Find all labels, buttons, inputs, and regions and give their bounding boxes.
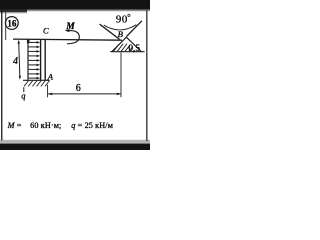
top black scan band [0,0,150,10]
support base line [110,51,144,53]
support hatching [113,44,132,52]
arrow 7 [29,68,38,70]
extension line left [47,85,49,98]
page background [0,0,150,150]
svg-text:M: M [65,22,75,32]
support triangle at B [112,37,141,51]
dimension 6 left arrowhead [48,93,52,96]
beam CB with left extension [13,39,122,40]
dimension 4 top arrowhead [18,40,20,44]
column left edge [40,40,42,81]
arrow 6 [29,64,38,66]
moment arrowhead [65,29,70,32]
extension line right [120,53,122,98]
load left boundary [27,40,29,80]
svg-text:16: 16 [7,18,17,28]
arrow 2 [29,46,38,48]
bottom black scan band [0,144,150,150]
svg-text:90: 90 [116,14,128,26]
arrow 5 [29,59,38,61]
ground line at A [23,79,50,81]
ground hatching [24,81,50,87]
svg-text:6: 6 [76,83,81,94]
svg-text:B: B [118,29,124,39]
svg-text:4: 4 [13,56,18,67]
moment arc M [67,31,79,44]
svg-text:C: C [43,26,49,36]
left page edge [1,9,2,141]
dimension 6 line [48,93,121,95]
svg-text:q: q [21,91,26,101]
variant circle [5,17,18,30]
arrow 8 [29,73,38,75]
distributed load arrows q [29,41,40,79]
arrow 3 [29,50,38,52]
svg-text:0,5: 0,5 [128,44,140,54]
column right edge [44,40,46,80]
svg-text:A: A [47,71,54,81]
rod L2 at B [126,21,142,37]
dimension 4 line [19,41,20,79]
arrow 1 [29,41,38,43]
frame right border line [146,10,147,141]
rod L1 at B [100,24,120,39]
load boundary top blob [27,40,30,43]
frame left remnant line [5,12,6,40]
q leader line [23,87,25,92]
arrow 9 [29,77,38,79]
bottom gray band [0,140,150,144]
dimension 4 bottom arrowhead [19,76,21,80]
dimension 6 right arrowhead [117,93,121,96]
arrow 4 [29,55,38,57]
frame top gray line [27,10,150,12]
90 degree arc [104,25,137,30]
